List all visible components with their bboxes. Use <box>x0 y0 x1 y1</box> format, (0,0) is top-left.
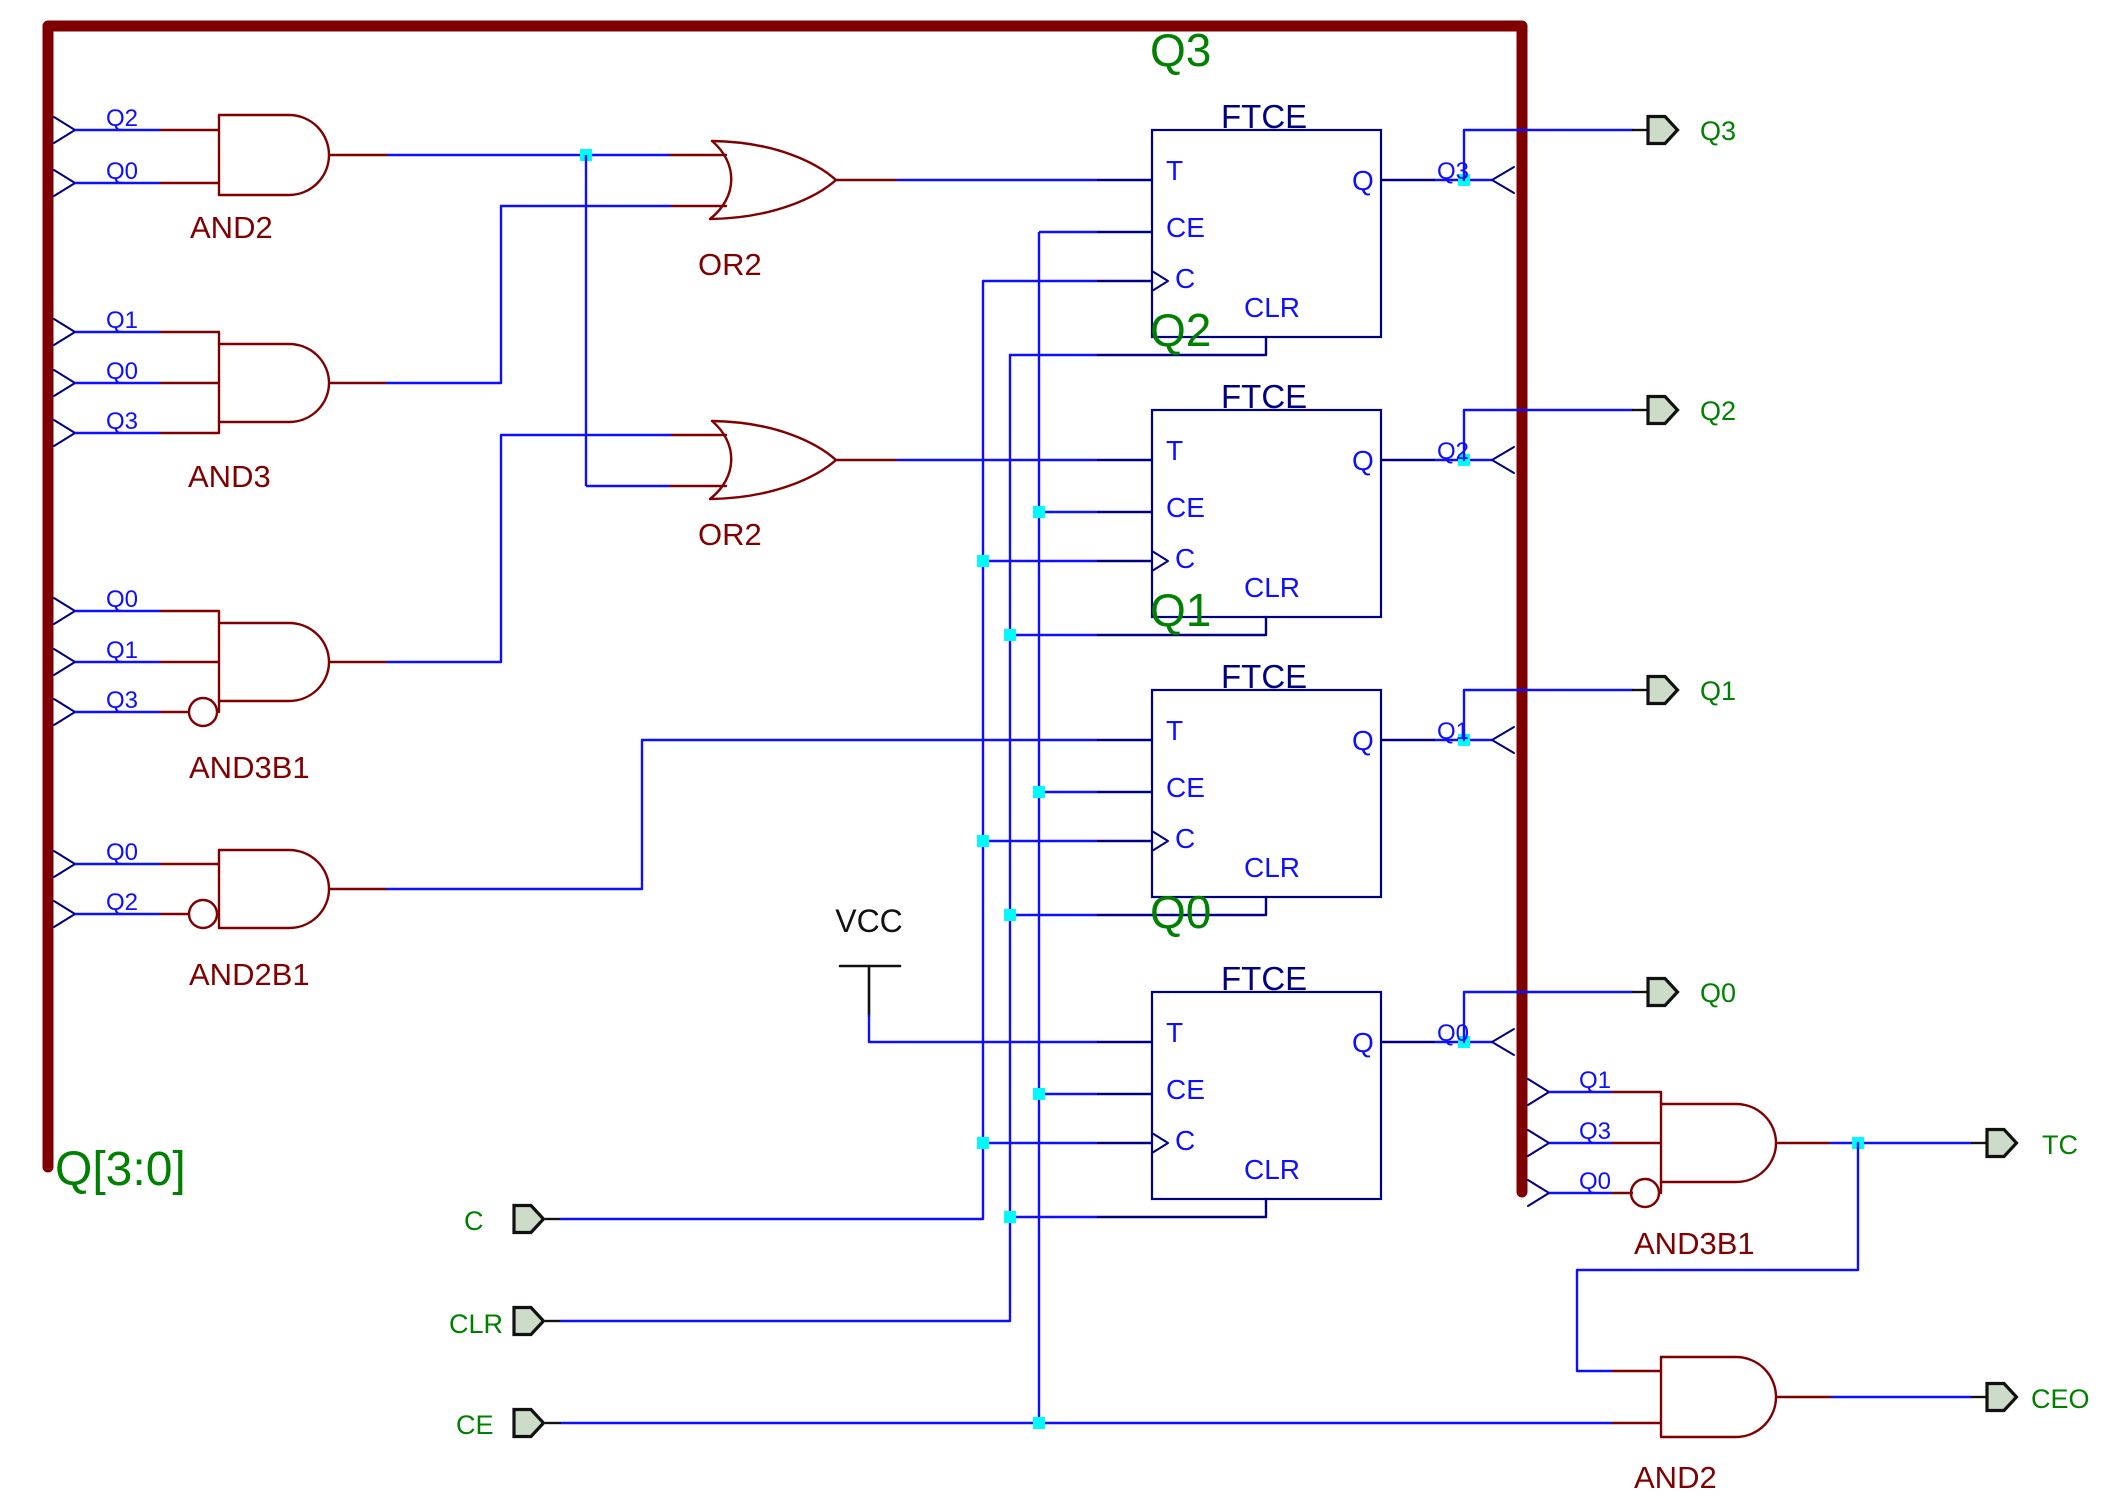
svg-text:CE: CE <box>1166 492 1205 523</box>
svg-text:Q0: Q0 <box>106 358 138 385</box>
FTCE Q0 CE pin stub <box>1097 1093 1152 1095</box>
FTCE Q3 CE pin stub <box>1097 231 1152 233</box>
wire CE branch to Q1 <box>1039 791 1097 793</box>
net label Q0 <box>106 586 138 613</box>
svg-text:T: T <box>1166 155 1183 186</box>
wire AND3-out <box>387 206 670 383</box>
flip-flop FTCE instance Q0 <box>1152 960 1381 1199</box>
wire CE net vertical <box>1038 232 1040 1423</box>
svg-text:CLR: CLR <box>1244 1154 1300 1185</box>
bus label Q[3:0] <box>55 1143 186 1196</box>
svg-text:Q1: Q1 <box>1437 718 1469 745</box>
svg-text:Q1: Q1 <box>106 637 138 664</box>
net label Q3 on Q wire <box>1437 158 1469 185</box>
wire Q0 right <box>1549 1192 1612 1194</box>
svg-text:FTCE: FTCE <box>1221 960 1307 997</box>
input port CE <box>456 1410 544 1441</box>
net label Q1 <box>106 637 138 664</box>
node junction C-Q1 <box>977 835 989 847</box>
or-gate OR2 (lower) <box>710 421 836 499</box>
svg-text:T: T <box>1166 435 1183 466</box>
svg-text:Q1: Q1 <box>1700 676 1736 706</box>
FTCE Q0 Q pin stub <box>1381 1041 1435 1043</box>
wire VCC to FF4 T <box>869 1016 1097 1042</box>
wire CE branch to Q3 <box>1039 231 1097 233</box>
svg-text:AND3B1: AND3B1 <box>189 750 310 785</box>
svg-text:Q2: Q2 <box>1437 438 1469 465</box>
svg-text:AND2: AND2 <box>190 210 273 245</box>
node junction CLR-Q0 <box>1004 1211 1016 1223</box>
node junction Q2 <box>1458 454 1470 466</box>
FTCE Q2 C pin stub <box>1097 560 1152 562</box>
net label Q3 <box>106 408 138 435</box>
instance label Q2 <box>1150 304 1211 356</box>
bus tap (input Q0 y=864) <box>54 851 75 877</box>
bus tap (input Q3 y=433) <box>54 420 75 446</box>
output port CEO <box>1987 1384 2090 1415</box>
FTCE Q1 T pin stub <box>1097 739 1152 741</box>
instance label Q1 <box>1150 584 1211 636</box>
port stub Q1 <box>1632 689 1648 691</box>
pin stub AND2 right bottom (CE) <box>1612 1422 1661 1424</box>
wire branch to OR2 lower bottom input <box>586 485 670 487</box>
wire Q3 from Q pin to bus tap <box>1435 179 1492 181</box>
input port CLR <box>449 1308 544 1340</box>
FTCE Q1 C pin stub <box>1097 840 1152 842</box>
output port Q3 <box>1648 116 1736 146</box>
flip-flop FTCE instance Q2 <box>1152 378 1381 617</box>
svg-text:TC: TC <box>2042 1130 2078 1160</box>
pin stub Q0 <box>160 382 219 384</box>
svg-text:CLR: CLR <box>449 1309 503 1339</box>
wire AND2-out to OR2 upper input <box>387 154 670 156</box>
wire AND2B1-out to FF3 T <box>387 740 1097 889</box>
FTCE Q1 CE pin stub <box>1097 791 1152 793</box>
net label Q0 on Q wire <box>1437 1020 1469 1047</box>
wire C branch to Q2 <box>983 560 1097 562</box>
and-gate AND2 (Q2·Q0) <box>219 115 329 195</box>
pin stub Q0 <box>160 863 219 865</box>
net label Q3 right <box>1579 1118 1611 1145</box>
net label Q2 on Q wire <box>1437 438 1469 465</box>
FTCE Q2 CLR pin stub <box>1097 617 1266 635</box>
net label Q1 <box>106 307 138 334</box>
and-gate AND2 right (CEO) <box>1661 1357 1776 1437</box>
svg-text:C: C <box>464 1206 484 1236</box>
wire Q1 up-over to port <box>1464 690 1632 740</box>
svg-text:Q0: Q0 <box>106 839 138 866</box>
node junction CE-root <box>1033 1417 1045 1429</box>
node junction CE-Q2 <box>1033 506 1045 518</box>
svg-text:Q1: Q1 <box>1579 1067 1611 1094</box>
svg-text:C: C <box>1175 543 1195 574</box>
AND3B1 right output stub <box>1776 1142 1830 1144</box>
svg-text:OR2: OR2 <box>698 517 762 552</box>
wire Q3 from bus <box>75 711 160 713</box>
svg-text:CLR: CLR <box>1244 852 1300 883</box>
svg-text:Q2: Q2 <box>1700 396 1736 426</box>
wire CLR net <box>561 355 1010 1321</box>
wire Q0 from bus <box>75 610 160 612</box>
svg-text:Q3: Q3 <box>1150 24 1211 76</box>
svg-text:Q3: Q3 <box>1437 158 1469 185</box>
and-gate AND2B1 (Q0·~Q2) <box>189 850 329 928</box>
port stub CE <box>545 1422 561 1424</box>
AND3 output stub <box>329 382 387 384</box>
pin stub Q0 <box>160 182 219 184</box>
wire TC to AND2 input <box>1577 1143 1858 1371</box>
input port C <box>464 1206 544 1237</box>
port stub TC <box>1971 1142 1987 1144</box>
wire CLR branch to Q2 <box>1010 634 1097 636</box>
wire CLR branch to Q1 <box>1010 914 1097 916</box>
node junction Q3 <box>1458 174 1470 186</box>
pin stub Q3 right <box>1612 1142 1661 1144</box>
svg-text:FTCE: FTCE <box>1221 658 1307 695</box>
svg-text:Q2: Q2 <box>1150 304 1211 356</box>
label AND3B1 right <box>1634 1226 1755 1261</box>
wire Q0 from bus <box>75 382 160 384</box>
FTCE Q3 T pin stub <box>1097 179 1152 181</box>
pin stub Q2 <box>160 129 219 131</box>
svg-text:Q0: Q0 <box>1579 1168 1611 1195</box>
wire Q1 from bus <box>75 661 160 663</box>
net label Q1 right <box>1579 1067 1611 1094</box>
bus tap (input Q3 y=712) <box>54 699 75 725</box>
instance label Q0 <box>1150 886 1211 938</box>
svg-text:Q0: Q0 <box>106 158 138 185</box>
bus tap Q0 (into bus) <box>1492 1029 1514 1055</box>
pin stub Q0 <box>160 610 219 612</box>
svg-text:Q3: Q3 <box>1579 1118 1611 1145</box>
bus tap (input Q2 y=914) <box>54 901 75 927</box>
svg-text:AND3B1: AND3B1 <box>1634 1226 1755 1261</box>
svg-text:Q0: Q0 <box>106 586 138 613</box>
pin stub Q2 <box>160 913 189 915</box>
FTCE Q1 CLR pin stub <box>1097 897 1266 915</box>
svg-text:Q2: Q2 <box>106 105 138 132</box>
output port Q0 <box>1648 978 1736 1008</box>
svg-text:Q: Q <box>1352 445 1374 476</box>
svg-text:CEO: CEO <box>2031 1384 2090 1414</box>
FTCE Q0 CLR pin stub <box>1097 1199 1266 1217</box>
node junction C-Q2 <box>977 555 989 567</box>
wire C branch to Q3 <box>983 280 1097 282</box>
wire Q3 from bus <box>75 432 160 434</box>
svg-text:Q0: Q0 <box>1437 1020 1469 1047</box>
svg-text:FTCE: FTCE <box>1221 98 1307 135</box>
wire C branch to Q0 <box>983 1142 1097 1144</box>
svg-text:C: C <box>1175 823 1195 854</box>
svg-text:Q3: Q3 <box>106 687 138 714</box>
wire CE branch to Q0 <box>1039 1093 1097 1095</box>
bus tap Q2 (into bus) <box>1492 447 1514 473</box>
wire Q1 from bus <box>75 331 160 333</box>
FTCE Q2 Q pin stub <box>1381 459 1435 461</box>
output port Q2 <box>1648 396 1736 426</box>
output port TC <box>1987 1130 2078 1161</box>
port stub Q3 <box>1632 129 1648 131</box>
wire Q3 right <box>1549 1142 1612 1144</box>
wire Q2 from Q pin to bus tap <box>1435 459 1492 461</box>
node junction CE-Q0 <box>1033 1088 1045 1100</box>
net label Q2 <box>106 105 138 132</box>
net label Q1 on Q wire <box>1437 718 1469 745</box>
bus tap (input Q2 y=130) <box>54 117 75 143</box>
label AND2 right <box>1634 1460 1717 1495</box>
port stub CEO <box>1971 1396 1987 1398</box>
FTCE Q0 T pin stub <box>1097 1041 1152 1043</box>
flip-flop FTCE instance Q1 <box>1152 658 1381 897</box>
or-gate OR2 (upper) <box>710 141 836 219</box>
node junction C-Q0 <box>977 1137 989 1149</box>
bus tap (input Q1 y=332) <box>54 319 75 345</box>
node junction CLR-Q1 <box>1004 909 1016 921</box>
and-gate AND3 (Q1·Q0·Q3) <box>219 332 329 433</box>
bus tap (input Q1 y=662) <box>54 649 75 675</box>
svg-text:Q0: Q0 <box>1700 978 1736 1008</box>
wire C net <box>561 281 983 1219</box>
bus tap (input Q0 y=383) <box>54 370 75 396</box>
wire AND3B1-out <box>387 435 670 662</box>
FTCE Q3 Q pin stub <box>1381 179 1435 181</box>
wire OR2 lower out to FF2 T <box>897 459 1097 461</box>
wire Q1 right <box>1549 1091 1612 1093</box>
port stub Q0 <box>1632 991 1648 993</box>
bus tap (input Q0 y=611) <box>54 598 75 624</box>
wire Q0 up-over to port <box>1464 992 1632 1042</box>
bus tap right Q3 <box>1528 1130 1549 1156</box>
wire Q0 from bus <box>75 863 160 865</box>
wire Q3 up-over to port <box>1464 130 1632 180</box>
svg-text:OR2: OR2 <box>698 247 762 282</box>
wire CE net horizontal <box>561 1422 1612 1424</box>
FTCE Q1 Q pin stub <box>1381 739 1435 741</box>
wire CE branch to Q2 <box>1039 511 1097 513</box>
svg-text:Q3: Q3 <box>106 408 138 435</box>
node junction Q1 <box>1458 734 1470 746</box>
FTCE Q3 C pin stub <box>1097 280 1152 282</box>
svg-text:Q: Q <box>1352 165 1374 196</box>
svg-text:CE: CE <box>1166 1074 1205 1105</box>
label AND2 <box>190 210 273 245</box>
instance label Q3 <box>1150 24 1211 76</box>
svg-text:T: T <box>1166 1017 1183 1048</box>
wire C branch to Q1 <box>983 840 1097 842</box>
wire CLR branch to Q3 <box>1010 354 1097 356</box>
bus tap right Q0 <box>1528 1180 1549 1206</box>
svg-text:Q: Q <box>1352 1027 1374 1058</box>
svg-text:Q0: Q0 <box>1150 886 1211 938</box>
pin stub Q1 right <box>1612 1091 1661 1093</box>
bus Q[3:0] main loop <box>48 26 1522 1192</box>
svg-text:T: T <box>1166 715 1183 746</box>
svg-text:AND3: AND3 <box>188 459 271 494</box>
svg-text:Q[3:0]: Q[3:0] <box>55 1143 186 1196</box>
label OR2 lower <box>698 517 762 552</box>
wire Q2 from bus <box>75 913 160 915</box>
and-gate AND3B1 right (Q1·Q3·~Q0) <box>1631 1092 1776 1207</box>
bus tap (input Q0 y=183) <box>54 170 75 196</box>
svg-text:FTCE: FTCE <box>1221 378 1307 415</box>
wire CLR branch to Q0 <box>1010 1216 1097 1218</box>
svg-text:CE: CE <box>1166 212 1205 243</box>
wire CEO <box>1831 1396 1971 1398</box>
wire TC <box>1830 1142 1971 1144</box>
power symbol VCC <box>835 903 903 1016</box>
wire OR2 upper out to FF1 T <box>897 179 1097 181</box>
node junction Q0 <box>1458 1036 1470 1048</box>
label OR2 upper <box>698 247 762 282</box>
bus tap right Q1 <box>1528 1079 1549 1105</box>
svg-text:C: C <box>1175 263 1195 294</box>
OR2 lower input stubs <box>670 435 726 486</box>
FTCE Q3 CLR pin stub <box>1097 337 1266 355</box>
AND3B1 output stub <box>329 661 387 663</box>
svg-text:Q1: Q1 <box>106 307 138 334</box>
bus tap Q1 (into bus) <box>1492 727 1514 753</box>
wire Q2 from bus <box>75 129 160 131</box>
net label Q0 <box>106 358 138 385</box>
svg-text:CE: CE <box>1166 772 1205 803</box>
net label Q0 <box>106 158 138 185</box>
label AND2B1 <box>189 957 310 992</box>
FTCE Q2 CE pin stub <box>1097 511 1152 513</box>
net label Q2 <box>106 889 138 916</box>
flip-flop FTCE instance Q3 <box>1152 98 1381 337</box>
node junction CLR-Q2 <box>1004 629 1016 641</box>
svg-text:Q3: Q3 <box>1700 116 1736 146</box>
wire Q0 from Q pin to bus tap <box>1435 1041 1492 1043</box>
node junction TC <box>1852 1137 1864 1149</box>
wire Q1 from Q pin to bus tap <box>1435 739 1492 741</box>
OR2 lower output stub <box>836 459 897 461</box>
OR2 upper output stub <box>836 179 897 181</box>
svg-text:VCC: VCC <box>835 903 903 939</box>
svg-text:C: C <box>1175 1125 1195 1156</box>
label AND3B1 <box>189 750 310 785</box>
node junction CE-Q1 <box>1033 786 1045 798</box>
bus tap Q3 (into bus) <box>1492 167 1514 193</box>
AND2 right output stub <box>1776 1396 1831 1398</box>
port stub CLR <box>545 1320 561 1322</box>
AND2B1 output stub <box>329 888 387 890</box>
FTCE Q0 C pin stub <box>1097 1142 1152 1144</box>
net label Q3 <box>106 687 138 714</box>
pin stub AND2 right top <box>1612 1370 1661 1372</box>
AND2 output stub <box>329 154 387 156</box>
svg-text:Q1: Q1 <box>1150 584 1211 636</box>
pin stub Q3 <box>160 711 189 713</box>
net label Q0 <box>106 839 138 866</box>
port stub C <box>545 1218 561 1220</box>
svg-text:AND2: AND2 <box>1634 1460 1717 1495</box>
label AND3 <box>188 459 271 494</box>
svg-text:CLR: CLR <box>1244 572 1300 603</box>
pin stub Q1 <box>160 661 219 663</box>
port stub Q2 <box>1632 409 1648 411</box>
svg-text:CLR: CLR <box>1244 292 1300 323</box>
wire Q0 from bus <box>75 182 160 184</box>
FTCE Q2 T pin stub <box>1097 459 1152 461</box>
net label Q0 right <box>1579 1168 1611 1195</box>
pin stub Q1 <box>160 331 219 333</box>
node junction AND2-out <box>580 149 592 161</box>
pin stub Q3 <box>160 432 219 434</box>
svg-text:Q: Q <box>1352 725 1374 756</box>
and-gate AND3B1 (Q0·Q1·~Q3) <box>189 611 329 726</box>
svg-text:Q2: Q2 <box>106 889 138 916</box>
wire Q2 up-over to port <box>1464 410 1632 460</box>
OR2 upper input stubs <box>670 155 726 206</box>
svg-text:AND2B1: AND2B1 <box>189 957 310 992</box>
wire AND2-out branch down <box>585 155 587 486</box>
pin stub Q0 right <box>1612 1192 1633 1194</box>
svg-text:CE: CE <box>456 1410 494 1440</box>
output port Q1 <box>1648 676 1736 706</box>
